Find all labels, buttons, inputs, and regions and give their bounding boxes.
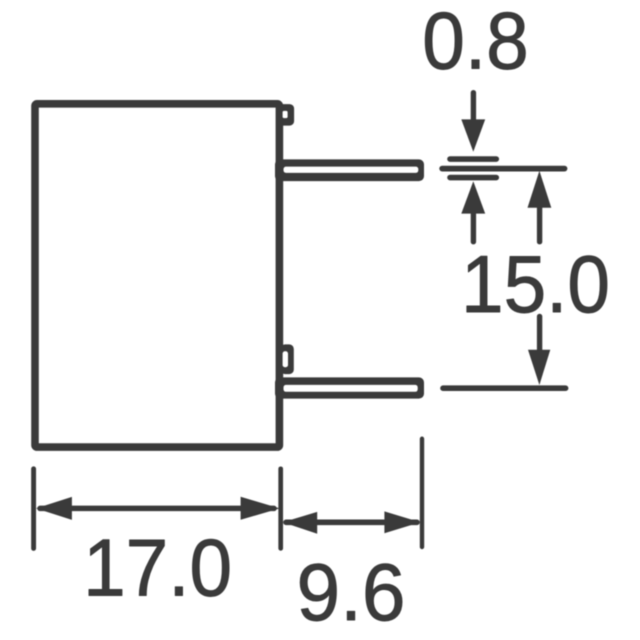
dim 0.8 upper arrowhead (down)	[461, 119, 485, 151]
pin 2 slot (white interior)	[284, 385, 418, 392]
dim 0.8 lower arrow shaft	[471, 213, 476, 242]
dim 9.6 right arrowhead	[384, 511, 420, 533]
dim 15.0 bottom reference line (pin 2 centerline)	[443, 385, 566, 391]
pin 1 slot (white interior)	[284, 167, 419, 173]
svg-text:17.0: 17.0	[83, 524, 232, 614]
svg-text:0.8: 0.8	[422, 0, 529, 87]
dim 15.0 upper arrow shaft	[537, 207, 542, 242]
dim 17.0 / 9.6 shared extension line	[278, 469, 283, 549]
dim 15.0 lower arrowhead (down)	[528, 350, 550, 385]
lower mounting tab	[281, 344, 294, 374]
dim 17.0 dimension line	[40, 506, 274, 512]
dim 15.0 top reference line (pin 1 centerline)	[442, 166, 564, 172]
svg-text:9.6: 9.6	[297, 548, 406, 638]
dim 17.0 right arrowhead	[241, 497, 280, 520]
svg-text:15.0: 15.0	[461, 240, 610, 330]
dim 9.6 dimension line	[286, 519, 417, 525]
pin 1 (upper lead) body	[275, 159, 424, 181]
dim 0.8 upper arrow shaft	[471, 93, 476, 122]
dim 9.6 right extension line	[420, 439, 424, 547]
dim 0.8 lower arrowhead (up)	[461, 181, 485, 213]
dim 0.8 top tick	[450, 156, 496, 162]
upper tab slot (white hole)	[283, 111, 288, 118]
dim 0.8 bottom tick	[450, 175, 496, 181]
pin 2 (lower lead) body	[275, 377, 424, 398]
component body outline	[35, 104, 279, 447]
dim 17.0 left extension line	[31, 469, 36, 549]
dim 17.0 left arrowhead	[36, 497, 72, 520]
lower tab slot (white hole)	[283, 351, 288, 367]
upper mounting tab	[279, 104, 294, 126]
dim 9.6 left arrowhead	[283, 512, 317, 534]
dim 15.0 lower arrow shaft	[537, 316, 542, 350]
dim 15.0 upper arrowhead (up)	[528, 171, 552, 208]
